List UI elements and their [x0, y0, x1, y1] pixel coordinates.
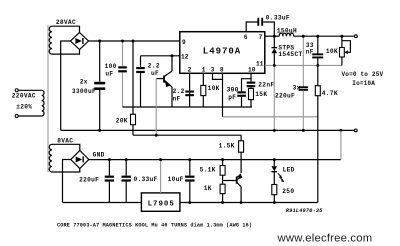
wire pins 3+8 loop: [213, 73, 223, 79]
resistor 1K: [220, 184, 225, 202]
capacitor 100uF: [118, 41, 127, 107]
svg-text:3300uF: 3300uF: [72, 88, 96, 95]
svg-text:220uF: 220uF: [79, 176, 99, 183]
capacitor 0.33uF bootstrap: [258, 18, 262, 26]
wire rail1 to GND rail link: [340, 130, 342, 159]
svg-text:nF: nF: [306, 49, 314, 56]
svg-text:7: 7: [259, 34, 263, 41]
svg-text:6: 6: [244, 34, 248, 41]
svg-text:4.7K: 4.7K: [322, 90, 338, 97]
wire D1 anode to rail1: [273, 65, 275, 130]
svg-text:pF: pF: [228, 94, 236, 101]
transformer primary winding 220VAC: [15, 89, 44, 118]
svg-text:0.33uF: 0.33uF: [266, 15, 290, 22]
wire output rail: [294, 35, 355, 37]
svg-text:3x: 3x: [293, 85, 301, 92]
resistor 15K: [249, 87, 254, 107]
output terminal: [355, 35, 358, 38]
wire BR1 negative to rail1: [61, 41, 71, 130]
wire feedback line y117: [223, 116, 318, 118]
wire pin 10: [242, 73, 252, 91]
svg-text:1.5K: 1.5K: [219, 143, 235, 150]
LED D2: [272, 160, 278, 185]
svg-text:8VAC: 8VAC: [57, 138, 73, 145]
svg-text:10: 10: [248, 66, 256, 73]
capacitor 2.2uF: [136, 56, 145, 107]
junction Q2 emitter / bottom rail: [240, 201, 243, 204]
svg-text:L4970A: L4970A: [203, 46, 241, 56]
wire pin 6 to bootstrap cap: [246, 22, 257, 32]
wire GND rail: [88, 159, 341, 161]
capacitor 220uF (bottom): [105, 160, 114, 203]
svg-text:10uF: 10uF: [168, 176, 184, 183]
svg-text:R91L4970-35: R91L4970-35: [286, 208, 323, 214]
svg-text:3: 3: [211, 66, 215, 73]
wire Q1 base to rail2: [155, 79, 157, 136]
transformer core: [47, 25, 49, 172]
junction D1 wire / rail1: [273, 129, 276, 132]
svg-text:2.2: 2.2: [173, 88, 185, 95]
svg-text:1: 1: [202, 66, 206, 73]
resistor 20K: [131, 41, 136, 135]
svg-text:20K: 20K: [116, 117, 128, 124]
wire L7905 gnd pin: [160, 160, 162, 193]
diode D1 STPS1545CT: [272, 36, 278, 65]
svg-text:250: 250: [282, 188, 294, 195]
svg-text:28VAC: 28VAC: [56, 19, 76, 26]
capacitor 2x3300uF: [94, 41, 105, 130]
resistor 1.5K: [239, 135, 244, 173]
resistor 4.7K: [315, 86, 320, 203]
junction 1K / bottom rail: [221, 201, 224, 204]
junction 5.1K / GND rail: [221, 158, 224, 161]
junction BR1+/C1: [98, 40, 101, 43]
wire 28VAC bottom lead: [52, 50, 80, 54]
resistor 250: [272, 185, 277, 203]
wire BR2 negative down: [63, 160, 71, 203]
wire 28VAC top lead: [52, 26, 80, 32]
svg-text:390: 390: [227, 87, 239, 94]
junction 250 / bottom rail: [273, 201, 276, 204]
svg-text:L7905: L7905: [148, 200, 175, 208]
svg-text:22nF: 22nF: [258, 82, 274, 89]
junction D1 / output rail: [273, 35, 276, 38]
svg-text:1545CT: 1545CT: [278, 51, 302, 58]
capacitor 3x220uF: [299, 36, 308, 130]
junction pin11 / D1 wire: [273, 64, 276, 67]
svg-text:uF: uF: [151, 70, 159, 77]
svg-text:www.elecfree.com: www.elecfree.com: [277, 233, 373, 245]
junction Q1 emitter / pin12 wire: [171, 54, 174, 57]
svg-text:12: 12: [181, 54, 189, 61]
svg-text:GND: GND: [93, 152, 105, 159]
junction LED / GND rail: [273, 158, 276, 161]
resistor 5.1K: [220, 160, 225, 185]
wire 8VAC top lead: [52, 144, 80, 150]
transistor Q2 NPN: [223, 174, 243, 203]
junction C1/rail1: [98, 129, 101, 132]
wire rail2: [133, 134, 241, 136]
IC U2 L7905: [141, 193, 180, 211]
svg-text:11: 11: [256, 61, 264, 68]
wire rail1 (negative rail): [61, 129, 354, 131]
svg-text:2x: 2x: [80, 79, 88, 86]
svg-text:Vo=0 to 25V: Vo=0 to 25V: [342, 71, 384, 78]
junction base wire / rail2: [155, 134, 158, 137]
wire divider mid: [317, 58, 319, 85]
capacitor 33nF: [312, 53, 323, 58]
capacitor 0.33uF (bottom): [122, 160, 131, 203]
junction pin11 / divider: [316, 64, 319, 67]
svg-text:Io=10A: Io=10A: [352, 80, 375, 87]
junction L7905 gnd / GND rail: [159, 158, 162, 161]
junction 10uF / bottom rail: [188, 201, 191, 204]
IC U1 L4970A: [180, 32, 265, 74]
wire bottom rail right: [180, 202, 318, 204]
svg-text:8: 8: [220, 66, 224, 73]
wire BR1 positive to pin 9: [89, 40, 180, 42]
LED arrows: [278, 173, 284, 182]
svg-text:0.33uF: 0.33uF: [134, 176, 158, 183]
svg-text:2.2: 2.2: [148, 62, 160, 69]
capacitor 2.2nF: [185, 91, 194, 97]
junction 100uF top: [121, 40, 124, 43]
svg-text:CORE 77003-A7 MAGNETICS KOOL M: CORE 77003-A7 MAGNETICS KOOL Mu 46 TURNS…: [57, 223, 252, 229]
capacitor 390pF: [237, 91, 246, 107]
potentiometer 10K: [340, 36, 351, 65]
svg-text:uF: uF: [105, 71, 113, 78]
wire bottom rail left: [63, 202, 142, 204]
bridge rectifier BR2: [71, 151, 89, 169]
wire output rail from pin 7: [265, 35, 279, 37]
secondary winding 28VAC: [49, 26, 52, 54]
bridge rectifier BR1: [71, 33, 89, 50]
junction 0.33uF / GND rail: [125, 158, 128, 161]
junction 20K top: [132, 40, 135, 43]
svg-text:LED: LED: [283, 167, 295, 174]
wire 8VAC bottom lead: [52, 169, 80, 173]
svg-text:±20%: ±20%: [16, 104, 32, 111]
resistor 10K pin1: [201, 73, 206, 107]
junction rail1 / gnd link: [339, 129, 342, 132]
svg-text:5.1K: 5.1K: [200, 167, 216, 174]
capacitor 22nF: [247, 79, 256, 88]
svg-text:220uF: 220uF: [275, 93, 295, 100]
svg-text:1K: 1K: [204, 185, 212, 192]
wire pin 12: [141, 55, 180, 57]
output negative terminal: [354, 129, 357, 132]
wire pin8 down: [222, 79, 224, 116]
svg-text:220VAC: 220VAC: [12, 93, 36, 100]
wire pin 2: [189, 73, 191, 107]
wire pin 11 feedback: [265, 64, 342, 66]
wire rail0 (signal ground): [123, 106, 252, 108]
secondary winding 8VAC: [49, 144, 52, 172]
junction 220uF / GND rail: [108, 158, 111, 161]
junction 3x220uF / output rail: [302, 35, 305, 38]
svg-text:10K: 10K: [326, 48, 338, 55]
wire feedback divider vertical: [317, 36, 319, 53]
svg-text:100: 100: [105, 63, 117, 70]
junction 10uF / GND rail: [188, 158, 191, 161]
transistor Q1 PNP: [156, 56, 172, 107]
junction 3x220uF / rail1: [302, 129, 305, 132]
svg-text:15K: 15K: [255, 91, 267, 98]
svg-text:nF: nF: [173, 95, 181, 102]
junction pot / output rail: [340, 35, 343, 38]
capacitor 10uF (bottom): [185, 160, 194, 203]
svg-text:10K: 10K: [208, 85, 220, 92]
svg-text:150uH: 150uH: [277, 28, 297, 35]
svg-text:9: 9: [182, 39, 186, 46]
wire bootstrap cap to switch node: [263, 22, 274, 36]
inductor 150uH: [279, 33, 293, 36]
svg-text:2: 2: [188, 66, 192, 73]
junction divider / output rail: [316, 35, 319, 38]
